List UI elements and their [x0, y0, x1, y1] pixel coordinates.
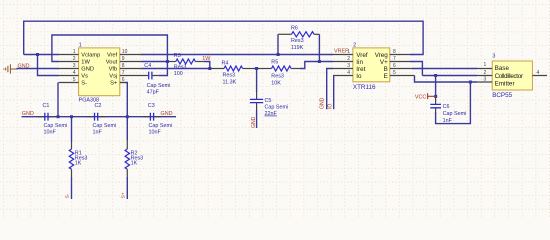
- svg-text:C4: C4: [144, 63, 151, 69]
- svg-text:6: 6: [393, 63, 396, 69]
- svg-text:Cap Semi: Cap Semi: [44, 123, 68, 129]
- svg-text:2: 2: [484, 70, 487, 76]
- svg-text:C3: C3: [148, 103, 155, 109]
- svg-text:R6: R6: [291, 25, 298, 31]
- svg-text:Colldillector: Colldillector: [495, 73, 523, 80]
- wire: V+ to collector row: [410, 62, 422, 76]
- wire: collector row to Q3: [422, 75, 477, 77]
- svg-text:BCP55: BCP55: [492, 92, 512, 99]
- capacitor C3: [143, 116, 162, 118]
- wire: node to R4: [210, 68, 212, 70]
- svg-text:R4: R4: [222, 61, 229, 67]
- junction S+/R2 tap: [126, 115, 129, 118]
- U2 pin names: [356, 52, 388, 80]
- U2 pin numbers: [347, 49, 396, 76]
- svg-text:5: 5: [393, 70, 396, 76]
- wire: S+ from pin6 down to R2: [120, 82, 126, 84]
- wire: 1W net from pin2 to Vout/Vsj: [52, 35, 167, 76]
- wire: Vfb row from pin8: [141, 68, 210, 70]
- svg-text:Res3: Res3: [223, 73, 236, 79]
- capacitor C1: [37, 116, 56, 118]
- junction C5 tap: [255, 67, 258, 70]
- wire: sensor rail with C1 C2 C3: [22, 116, 177, 118]
- svg-text:10nF: 10nF: [149, 130, 162, 136]
- resistor R5: [259, 68, 272, 70]
- ground GND power port (left): [4, 64, 18, 73]
- svg-text:C1: C1: [43, 103, 50, 109]
- U1 pin names: [81, 53, 118, 87]
- junction R6 right tap: [318, 60, 321, 63]
- svg-text:GND: GND: [251, 116, 257, 128]
- svg-text:7: 7: [393, 56, 396, 62]
- svg-text:Emitter: Emitter: [495, 81, 515, 88]
- svg-text:3: 3: [484, 76, 487, 82]
- svg-text:Cap Semi: Cap Semi: [149, 123, 173, 129]
- svg-text:1: 1: [79, 43, 82, 49]
- svg-text:2: 2: [347, 56, 350, 62]
- svg-text:1: 1: [73, 49, 76, 55]
- capacitor C2: [87, 116, 107, 118]
- wire: Iret down to GND stub: [327, 69, 333, 110]
- U1 left pin leads: [59, 55, 79, 83]
- Q3 pin numbers: [484, 62, 540, 82]
- svg-text:Base: Base: [495, 65, 510, 72]
- U2 right pin leads: [390, 55, 415, 76]
- wire: R3 out, down to Vfb row: [195, 61, 203, 63]
- svg-text:Cap Semi: Cap Semi: [93, 123, 117, 129]
- wire: GND to pin3: [17, 68, 59, 70]
- svg-text:Vclamp: Vclamp: [81, 53, 100, 59]
- wire: Vout row to R3: [141, 61, 170, 63]
- wire: top supply net Vclamp/Vs/Vreg: [24, 21, 423, 75]
- svg-text:R3: R3: [174, 53, 181, 59]
- svg-text:1W: 1W: [202, 56, 211, 62]
- svg-text:GND: GND: [320, 97, 326, 109]
- svg-text:1K: 1K: [75, 161, 82, 167]
- svg-text:1nF: 1nF: [93, 130, 103, 136]
- op-amp U1 PGA308 body: [79, 48, 120, 96]
- svg-text:2: 2: [73, 56, 76, 62]
- svg-text:Iret: Iret: [356, 66, 365, 73]
- svg-text:IO: IO: [327, 104, 333, 109]
- svg-text:GND: GND: [81, 67, 94, 73]
- wire: VREF row from U1 pin10 to U2 pin1: [141, 54, 333, 56]
- junction node on Vclamp wire: [36, 53, 39, 56]
- svg-text:Res3: Res3: [271, 74, 284, 80]
- svg-text:E: E: [384, 73, 388, 80]
- svg-text:10: 10: [122, 49, 128, 55]
- svg-text:V+: V+: [380, 59, 388, 66]
- wire: S- from pin5 down to sensor rail: [57, 83, 59, 117]
- capacitor C4: [149, 72, 152, 80]
- svg-text:5: 5: [73, 77, 76, 83]
- svg-text:100: 100: [174, 71, 183, 77]
- svg-text:Io: Io: [356, 73, 362, 80]
- svg-text:1: 1: [484, 62, 487, 68]
- svg-text:Cap Semi: Cap Semi: [147, 83, 171, 89]
- op-amp U2 XTR116 body: [353, 48, 390, 82]
- svg-text:Vreg: Vreg: [375, 52, 389, 59]
- U2 left pin leads: [333, 55, 353, 76]
- junction Vfb/R3/R4 node: [208, 67, 211, 70]
- svg-text:S+: S+: [110, 81, 118, 87]
- svg-text:6: 6: [122, 77, 125, 83]
- svg-text:47pF: 47pF: [147, 89, 160, 95]
- svg-text:4: 4: [537, 70, 540, 76]
- Q3 pin names: [495, 65, 523, 87]
- junction emitter/C6 return: [469, 81, 472, 84]
- Q3 pin leads: [477, 69, 547, 83]
- svg-text:3: 3: [347, 63, 350, 69]
- svg-text:4: 4: [347, 70, 350, 76]
- svg-text:Vref: Vref: [356, 52, 368, 59]
- svg-text:Vs: Vs: [81, 74, 88, 80]
- svg-text:S-: S-: [81, 81, 87, 87]
- svg-text:Vref: Vref: [107, 53, 118, 59]
- svg-text:XTR116: XTR116: [353, 84, 376, 91]
- svg-text:3: 3: [73, 63, 76, 69]
- wire: R4 to R5: [243, 68, 254, 70]
- svg-text:3: 3: [492, 54, 495, 60]
- svg-text:C2: C2: [95, 103, 102, 109]
- capacitor C5: [256, 69, 258, 93]
- resistor R3: [176, 59, 196, 64]
- power port VCC: [428, 93, 436, 99]
- svg-text:8: 8: [393, 49, 396, 55]
- svg-text:S-: S-: [65, 193, 71, 198]
- resistor R1: [71, 117, 73, 142]
- svg-text:C6: C6: [443, 104, 450, 110]
- resistor R6: [277, 34, 279, 54]
- svg-text:1: 1: [347, 49, 350, 55]
- junction node at Vout row: [166, 60, 169, 63]
- junction S- tap: [57, 115, 60, 118]
- svg-text:10K: 10K: [271, 81, 281, 87]
- svg-text:VCC: VCC: [415, 94, 426, 100]
- transistor Q3 BCP55 body: [492, 61, 532, 90]
- svg-text:1nF: 1nF: [443, 118, 453, 124]
- svg-text:S+: S+: [121, 192, 127, 198]
- capacitor C6 branch: [435, 76, 437, 99]
- U1 pin numbers: [73, 49, 128, 83]
- svg-text:11.3K: 11.3K: [223, 79, 237, 85]
- U1 right pin leads: [120, 55, 145, 83]
- svg-text:10nF: 10nF: [44, 130, 57, 136]
- svg-text:8: 8: [122, 63, 125, 69]
- resistor R4: [224, 66, 243, 71]
- svg-text:7: 7: [122, 70, 125, 76]
- svg-text:Res3: Res3: [291, 38, 304, 44]
- wire: R5 out step up to Iin: [300, 62, 333, 69]
- node R6 left tap: [277, 53, 280, 56]
- junction R1 tap: [70, 115, 73, 118]
- svg-text:Vsj: Vsj: [109, 74, 117, 80]
- junction C6 tap: [434, 74, 437, 77]
- svg-text:4: 4: [73, 70, 76, 76]
- svg-text:Vfb: Vfb: [109, 67, 118, 73]
- svg-text:9: 9: [122, 56, 125, 62]
- svg-text:Vout: Vout: [106, 60, 118, 66]
- svg-text:2: 2: [353, 43, 356, 49]
- svg-text:119K: 119K: [291, 45, 304, 51]
- svg-text:Iin: Iin: [356, 59, 363, 66]
- resistor R2: [126, 140, 128, 149]
- svg-text:C5: C5: [265, 98, 272, 104]
- svg-text:GND: GND: [161, 111, 173, 117]
- svg-text:1K: 1K: [131, 161, 138, 167]
- svg-text:GND: GND: [22, 111, 34, 117]
- svg-text:Res3: Res3: [174, 64, 187, 70]
- wire: E step down to emitter row: [415, 76, 478, 83]
- wire: Io down to stub: [333, 76, 335, 110]
- junction VCC tap: [434, 95, 437, 98]
- svg-text:1W: 1W: [81, 60, 90, 66]
- svg-text:B: B: [384, 66, 388, 73]
- svg-text:Cap Semi: Cap Semi: [265, 104, 289, 110]
- svg-text:R5: R5: [271, 59, 278, 65]
- wire: B row to base: [412, 68, 477, 70]
- svg-text:Cap Semi: Cap Semi: [443, 111, 467, 117]
